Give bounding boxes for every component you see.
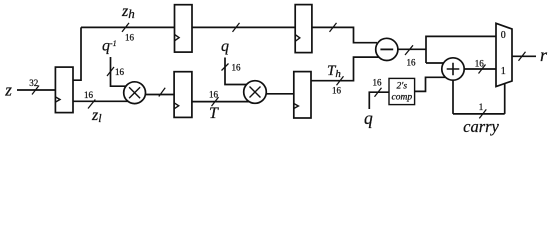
wire M1 output to reg2 bbox=[135, 94, 175, 96]
slash T_h 16 bbox=[337, 76, 344, 85]
wire mux output r bbox=[512, 55, 536, 57]
svg-text:16: 16 bbox=[232, 63, 242, 73]
svg-text:16: 16 bbox=[332, 86, 342, 96]
2s comp box bbox=[389, 78, 415, 104]
wire carry up to mux select bbox=[504, 84, 506, 114]
svg-text:carry: carry bbox=[463, 117, 499, 136]
adder bbox=[442, 58, 464, 80]
svg-text:zh: zh bbox=[121, 3, 135, 21]
svg-text:T: T bbox=[209, 105, 219, 122]
wire M2 output to reg4 bbox=[255, 93, 294, 95]
register R2 bottom1 bbox=[174, 72, 192, 118]
svg-text:0: 0 bbox=[501, 30, 506, 41]
svg-text:16: 16 bbox=[373, 78, 383, 88]
svg-text:16: 16 bbox=[209, 90, 219, 100]
multiplier M2 bbox=[244, 81, 267, 104]
slash z 32 bbox=[32, 86, 39, 95]
svg-text:q-1: q-1 bbox=[102, 38, 117, 55]
wire reg5 to subtractor upper input bbox=[312, 27, 377, 42]
svg-text:16: 16 bbox=[115, 67, 125, 77]
svg-text:16: 16 bbox=[407, 58, 417, 68]
wire junction up to mux input 0 bbox=[426, 36, 496, 63]
svg-text:z: z bbox=[4, 81, 12, 100]
svg-text:16: 16 bbox=[475, 59, 485, 69]
svg-text:1: 1 bbox=[501, 66, 506, 77]
svg-text:16: 16 bbox=[84, 90, 94, 100]
slash z_l 16 bbox=[88, 100, 95, 109]
svg-text:q: q bbox=[364, 108, 373, 128]
multiplier M1 bbox=[124, 82, 146, 104]
register R5 top2 bbox=[295, 5, 312, 53]
slash q-1 16 bbox=[107, 67, 114, 76]
mux bbox=[496, 23, 512, 86]
svg-text:q: q bbox=[221, 38, 229, 55]
slash mux out bbox=[519, 52, 526, 61]
wire top rail z_h to reg3 bbox=[81, 26, 175, 28]
svg-text:Th: Th bbox=[327, 63, 341, 80]
svg-text:1: 1 bbox=[479, 102, 484, 112]
bus slashes bbox=[32, 23, 526, 119]
wire 2s comp output to adder lower input bbox=[415, 77, 453, 91]
wire z input bbox=[17, 89, 55, 91]
wire adder output to mux input 1 bbox=[465, 68, 496, 70]
slash comp in 16 bbox=[375, 88, 382, 97]
slash sub out 16 bbox=[405, 45, 413, 55]
slash adder out 16 bbox=[479, 65, 486, 74]
wire T_h reg4 to subtractor lower input bbox=[311, 57, 387, 81]
wire T reg2 to multiplier M2 bbox=[192, 101, 255, 103]
wire reg1 upper output to top rail bbox=[73, 27, 81, 80]
register R4 bottom2 bbox=[294, 72, 311, 118]
wire z_l reg1 to multiplier M1 bbox=[73, 100, 135, 102]
slash M1 out bbox=[159, 88, 165, 97]
wire carry horizontal bbox=[453, 113, 505, 115]
slash carry 1 bbox=[479, 109, 486, 118]
svg-text:2's: 2's bbox=[397, 82, 408, 92]
svg-text:comp: comp bbox=[392, 93, 413, 103]
svg-text:16: 16 bbox=[125, 33, 135, 43]
wire adder carry out down bbox=[452, 80, 454, 114]
register R1 bbox=[55, 67, 73, 113]
slash top mid bbox=[233, 23, 240, 32]
subtractor bbox=[376, 38, 398, 60]
wire q input down into M2 bbox=[225, 58, 255, 85]
wire reg3 to reg5 bbox=[192, 26, 295, 28]
wire q input up into 2s comp bbox=[369, 92, 389, 109]
svg-text:zl: zl bbox=[91, 107, 102, 125]
slash T 16 bbox=[212, 97, 219, 106]
slash q 16 bbox=[222, 64, 229, 71]
slash top right bbox=[330, 23, 337, 32]
svg-text:32: 32 bbox=[29, 78, 38, 88]
slash z_h 16 bbox=[122, 23, 129, 32]
wire subtractor output to junction bbox=[387, 48, 426, 50]
register R3 top1 bbox=[175, 5, 193, 52]
svg-text:r: r bbox=[540, 45, 548, 65]
wire q-1 input down into M1 bbox=[111, 57, 135, 86]
wire junction down to adder upper input bbox=[426, 62, 453, 64]
